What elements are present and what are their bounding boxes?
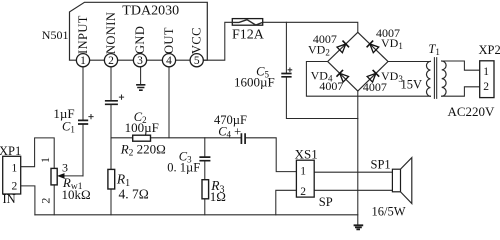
- svg-text:N501: N501: [42, 28, 69, 42]
- svg-text:2: 2: [12, 181, 18, 193]
- wire XS1 pin1 to speaker: [314, 171, 392, 173]
- pin 1: [76, 54, 89, 67]
- svg-text:2: 2: [483, 81, 489, 93]
- wire bridge right corner to T1: [388, 61, 430, 63]
- diode VD4: [336, 70, 349, 83]
- connector XP2: [480, 61, 494, 98]
- wire bridge bottom to ground: [357, 91, 359, 225]
- wire XP1 pin1 to pot: [21, 138, 55, 169]
- svg-text:IN: IN: [3, 192, 16, 206]
- svg-text:OUT: OUT: [162, 27, 176, 54]
- svg-text:SP: SP: [319, 195, 333, 209]
- svg-text:2: 2: [300, 186, 306, 198]
- wire wiper to C1 line: [63, 175, 83, 177]
- svg-text:F12A: F12A: [232, 28, 265, 43]
- svg-text:4007: 4007: [319, 79, 343, 93]
- pin 3: [133, 54, 146, 67]
- wire pin5 to fuse: [203, 22, 358, 60]
- resistor R2: [133, 135, 151, 141]
- svg-text:NONIN: NONIN: [104, 12, 118, 54]
- svg-text:1600µF: 1600µF: [234, 74, 275, 89]
- wire T1 primary to XP2 pin1: [442, 61, 480, 70]
- fuse F1 2A: [232, 19, 262, 26]
- potentiometer Rw1 body: [51, 168, 57, 185]
- svg-text:2: 2: [108, 55, 114, 67]
- svg-text:GND: GND: [133, 26, 147, 54]
- pin 4: [162, 54, 175, 67]
- wire R3 to rail: [204, 199, 206, 215]
- wire pin1 drop: [82, 60, 84, 119]
- wire C5 bottom to ground line: [286, 77, 357, 118]
- speaker SP1: [392, 169, 400, 192]
- svg-text:1Ω: 1Ω: [210, 189, 226, 204]
- svg-text:1: 1: [483, 66, 489, 78]
- wire pin4 OUT drop: [168, 60, 170, 138]
- svg-text:3: 3: [137, 55, 143, 67]
- capacitor C1: [78, 120, 88, 124]
- svg-text:C1: C1: [62, 120, 75, 135]
- svg-text:1: 1: [12, 162, 18, 174]
- transformer T1 core: [434, 58, 436, 99]
- svg-text:XS1: XS1: [295, 147, 318, 162]
- wire XP1 pin2 to rail: [21, 186, 35, 215]
- svg-text:T1: T1: [428, 42, 439, 57]
- svg-text:5: 5: [194, 55, 200, 67]
- svg-text:XP1: XP1: [0, 144, 21, 158]
- wire pin2 drop: [110, 60, 112, 100]
- wire C3 to R3: [204, 162, 206, 180]
- svg-text:TDA2030: TDA2030: [122, 3, 179, 18]
- svg-text:4. 7Ω: 4. 7Ω: [119, 186, 149, 201]
- svg-text:0. 1µF: 0. 1µF: [167, 160, 200, 174]
- op-amp IC U1 TDA2030 body: [70, 2, 208, 60]
- capacitor C5: [281, 74, 291, 77]
- bridge rectifier diamond: [328, 32, 388, 91]
- wire R2 to C4: [151, 137, 242, 139]
- svg-text:1: 1: [80, 55, 86, 67]
- ground (main): [354, 225, 364, 229]
- pin 5: [190, 54, 203, 67]
- wire bridge left corner loop: [306, 62, 430, 97]
- ground (pin 3): [136, 85, 145, 90]
- wire ground rail bottom: [35, 214, 358, 216]
- wire pin3 stub: [140, 60, 142, 84]
- wire T1 primary to XP2 pin2: [442, 87, 480, 96]
- wire C1 to wiper node: [82, 124, 84, 175]
- transformer T1 secondary coil: [426, 61, 430, 96]
- diode VD3: [367, 70, 380, 83]
- wire C3 branch upper: [204, 138, 206, 156]
- wire C5 top: [285, 22, 287, 72]
- capacitor C3: [199, 157, 210, 161]
- svg-text:10kΩ: 10kΩ: [62, 187, 91, 202]
- svg-text:2: 2: [39, 198, 53, 204]
- wire feedback node to R2: [111, 137, 133, 139]
- svg-text:4: 4: [166, 55, 172, 67]
- svg-text:100µF: 100µF: [125, 120, 159, 135]
- resistor R3: [202, 180, 209, 199]
- wire pot bottom to rail: [53, 185, 55, 215]
- wire XS1 pin2 to speaker: [314, 189, 392, 191]
- svg-text:1: 1: [300, 166, 306, 178]
- pin 2: [104, 54, 117, 67]
- svg-text:16/5W: 16/5W: [372, 204, 406, 218]
- wire C4 to XS1 pin1: [245, 138, 296, 172]
- svg-text:R2 220Ω: R2 220Ω: [120, 141, 166, 158]
- capacitor C4: [241, 133, 245, 144]
- connector XS1: [296, 160, 314, 197]
- svg-text:VCC: VCC: [190, 27, 204, 54]
- potentiometer wiper arrow: [57, 173, 65, 179]
- svg-text:1: 1: [38, 157, 52, 163]
- svg-text:SP1: SP1: [371, 157, 391, 171]
- svg-text:4007: 4007: [363, 80, 387, 94]
- svg-text:XP2: XP2: [479, 43, 500, 57]
- wire R1 to rail: [110, 189, 112, 215]
- svg-text:3: 3: [62, 161, 68, 175]
- wire C2 to R1: [110, 105, 112, 170]
- svg-text:15V: 15V: [401, 78, 423, 92]
- diode VD1: [367, 41, 380, 54]
- svg-text:AC220V: AC220V: [448, 104, 496, 119]
- svg-text:INPUT: INPUT: [76, 15, 90, 54]
- diode VD2: [336, 41, 349, 54]
- capacitor C2: [105, 101, 118, 105]
- connector XP1: [3, 156, 21, 194]
- resistor R1: [108, 169, 115, 189]
- wire XS1 pin2 to rail: [276, 190, 297, 215]
- transformer T1 primary coil: [442, 61, 446, 96]
